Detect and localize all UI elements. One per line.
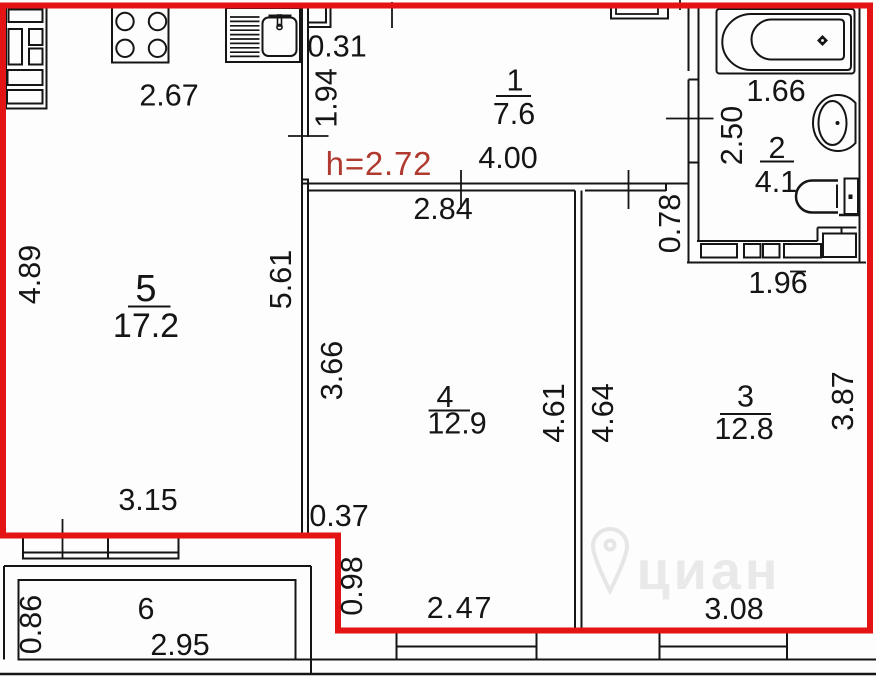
svg-text:0.31: 0.31 bbox=[307, 30, 366, 64]
svg-text:0.78: 0.78 bbox=[653, 194, 687, 253]
svg-text:1: 1 bbox=[507, 64, 524, 98]
svg-text:12.9: 12.9 bbox=[427, 407, 486, 441]
svg-text:6: 6 bbox=[138, 592, 155, 626]
svg-text:h=2.72: h=2.72 bbox=[326, 145, 433, 182]
svg-text:7.6: 7.6 bbox=[493, 97, 535, 131]
svg-text:3.87: 3.87 bbox=[826, 371, 860, 430]
svg-text:0.86: 0.86 bbox=[14, 595, 48, 654]
svg-text:3: 3 bbox=[737, 380, 754, 414]
svg-text:2.84: 2.84 bbox=[413, 192, 472, 226]
svg-text:3.08: 3.08 bbox=[704, 592, 763, 626]
svg-text:2.50: 2.50 bbox=[715, 106, 749, 165]
svg-text:4.00: 4.00 bbox=[478, 141, 537, 175]
svg-text:1.96: 1.96 bbox=[748, 266, 807, 300]
svg-text:17.2: 17.2 bbox=[113, 307, 179, 345]
svg-text:0.98: 0.98 bbox=[335, 556, 369, 615]
svg-text:2.95: 2.95 bbox=[150, 628, 209, 662]
svg-text:2.47: 2.47 bbox=[427, 591, 494, 625]
svg-text:0.37: 0.37 bbox=[309, 499, 368, 533]
svg-text:12.8: 12.8 bbox=[714, 412, 773, 446]
svg-text:3.66: 3.66 bbox=[315, 341, 349, 400]
svg-text:5: 5 bbox=[135, 268, 156, 310]
svg-text:4.61: 4.61 bbox=[537, 383, 571, 442]
svg-text:4.64: 4.64 bbox=[586, 383, 620, 442]
svg-text:4.1: 4.1 bbox=[755, 165, 797, 199]
svg-text:2: 2 bbox=[769, 131, 786, 165]
svg-text:4.89: 4.89 bbox=[13, 245, 47, 304]
svg-text:3.15: 3.15 bbox=[118, 483, 177, 517]
svg-text:2.67: 2.67 bbox=[139, 79, 198, 113]
svg-text:1.94: 1.94 bbox=[310, 68, 344, 127]
svg-text:5.61: 5.61 bbox=[264, 250, 298, 309]
svg-text:1.66: 1.66 bbox=[746, 74, 805, 108]
